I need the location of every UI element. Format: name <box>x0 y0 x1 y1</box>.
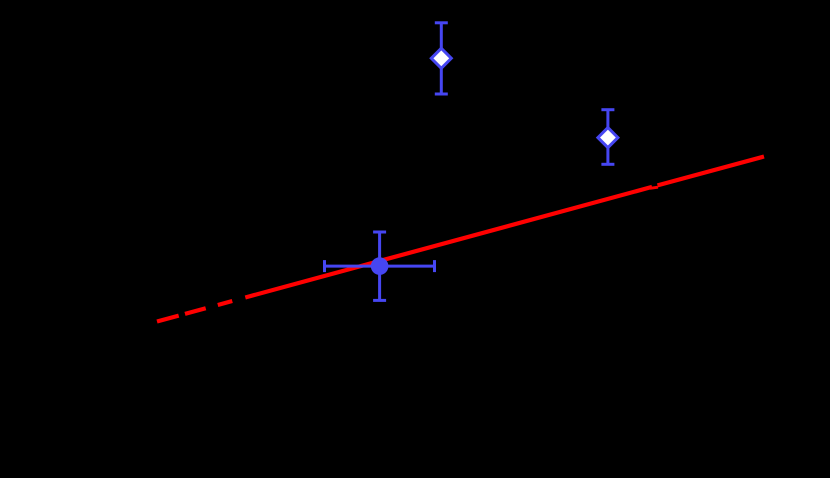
error bar set for diamond point D1 (vertical) <box>435 23 448 94</box>
D2 vertical error line <box>606 110 609 165</box>
error bar set for circle point C1 (x and y) <box>325 232 435 300</box>
diamond marker D2 <box>598 128 618 148</box>
D1 bottom cap <box>435 93 448 96</box>
D2 bottom cap <box>601 163 614 166</box>
C1 horizontal error line <box>325 265 435 268</box>
C1 bottom cap <box>373 299 386 302</box>
D2 top cap <box>601 108 614 111</box>
C1 vertical error line <box>378 232 381 300</box>
circle marker C1 <box>371 257 389 275</box>
red fit line: solid right segment <box>658 157 765 186</box>
red fit line: short joint tail (slight dip as in original) <box>650 187 658 188</box>
D1 vertical error line <box>440 23 443 94</box>
C1 right cap <box>433 260 436 272</box>
diamond marker D1 <box>431 48 451 68</box>
D1 top cap <box>435 21 448 24</box>
red fit line: dashed at left then solid <box>157 187 652 322</box>
error bar set for diamond point D2 (vertical) <box>601 110 614 165</box>
C1 top cap <box>373 231 386 234</box>
C1 left cap <box>323 260 326 272</box>
